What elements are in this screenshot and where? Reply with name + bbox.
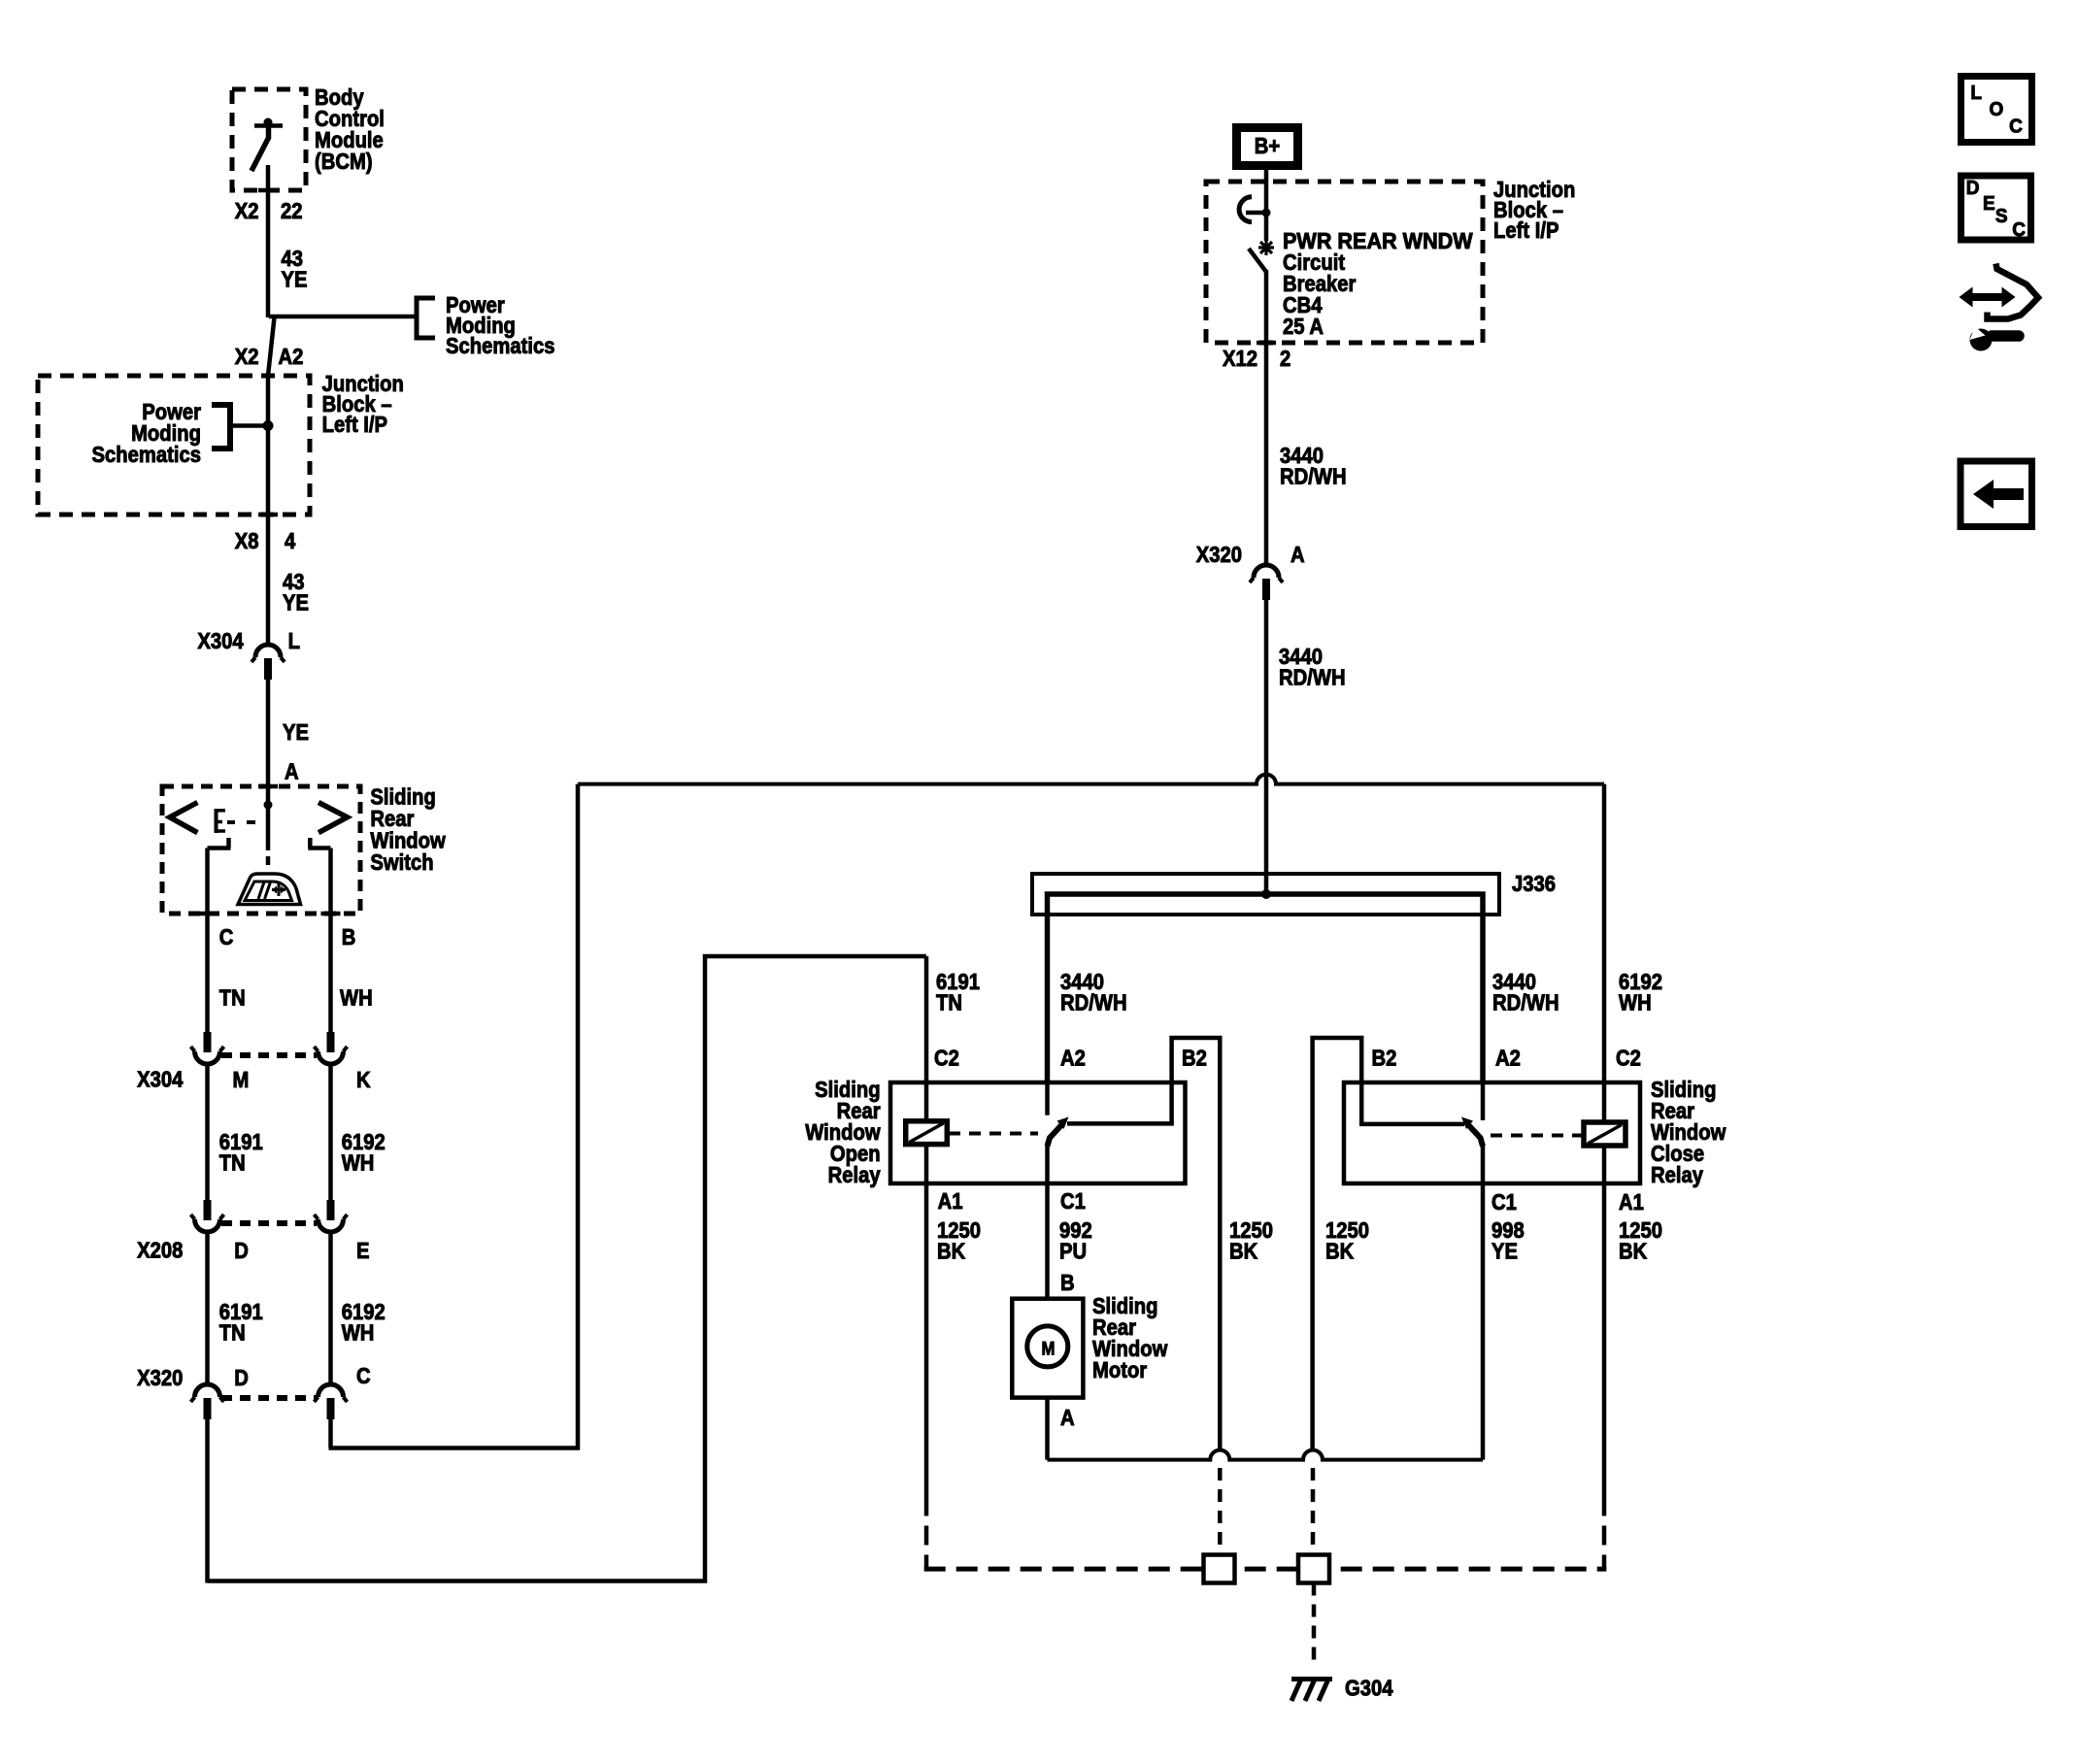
svg-text:C: C <box>356 1363 371 1389</box>
svg-text:25 A: 25 A <box>1283 314 1324 340</box>
svg-text:22: 22 <box>281 198 303 224</box>
svg-text:A1: A1 <box>1619 1189 1644 1215</box>
svg-text:Relay: Relay <box>828 1162 881 1188</box>
svg-text:X304: X304 <box>137 1066 183 1092</box>
svg-text:YE: YE <box>282 266 308 292</box>
svg-text:RD/WH: RD/WH <box>1060 989 1127 1015</box>
svg-text:TN: TN <box>219 984 246 1011</box>
svg-text:WH: WH <box>342 1319 375 1346</box>
svg-text:A: A <box>1060 1405 1075 1431</box>
svg-text:A: A <box>1290 542 1305 568</box>
svg-text:Left I/P: Left I/P <box>322 412 387 438</box>
svg-text:C1: C1 <box>1491 1189 1517 1215</box>
svg-text:TN: TN <box>936 989 962 1015</box>
svg-text:B2: B2 <box>1182 1045 1207 1071</box>
svg-text:RD/WH: RD/WH <box>1280 463 1347 489</box>
svg-text:K: K <box>356 1067 371 1093</box>
svg-text:C1: C1 <box>1060 1188 1086 1215</box>
svg-text:B: B <box>1060 1270 1075 1296</box>
svg-text:S: S <box>1995 206 2008 228</box>
svg-text:X320: X320 <box>137 1365 183 1391</box>
svg-text:J336: J336 <box>1512 871 1556 897</box>
svg-text:M: M <box>1042 1339 1056 1359</box>
svg-text:L: L <box>1970 83 1982 105</box>
svg-text:Schematics: Schematics <box>446 333 554 359</box>
svg-text:A2: A2 <box>1495 1045 1521 1071</box>
svg-text:YE: YE <box>283 589 309 616</box>
svg-text:Motor: Motor <box>1092 1357 1148 1383</box>
svg-text:A2: A2 <box>1060 1045 1086 1071</box>
svg-text:Relay: Relay <box>1651 1162 1703 1188</box>
svg-text:C: C <box>2009 116 2023 138</box>
svg-text:D: D <box>234 1365 249 1391</box>
svg-text:C: C <box>219 924 234 950</box>
svg-text:BK: BK <box>1229 1238 1258 1264</box>
svg-text:D: D <box>1966 178 1980 200</box>
svg-text:2: 2 <box>1280 346 1290 372</box>
svg-text:(BCM): (BCM) <box>315 149 373 175</box>
svg-text:X208: X208 <box>137 1237 183 1263</box>
svg-text:B+: B+ <box>1255 133 1280 159</box>
svg-text:WH: WH <box>340 984 373 1011</box>
svg-text:A: A <box>285 758 299 784</box>
svg-text:YE: YE <box>283 719 309 746</box>
svg-text:B2: B2 <box>1372 1045 1397 1071</box>
svg-text:O: O <box>1990 99 2004 121</box>
svg-text:D: D <box>234 1238 249 1264</box>
svg-text:C: C <box>2012 219 2026 242</box>
svg-text:X8: X8 <box>235 528 259 554</box>
svg-text:E: E <box>1983 193 1995 216</box>
svg-text:X2: X2 <box>235 198 259 224</box>
svg-text:X304: X304 <box>197 628 243 654</box>
svg-text:X12: X12 <box>1223 346 1257 372</box>
svg-text:M: M <box>233 1067 250 1093</box>
svg-text:Left I/P: Left I/P <box>1493 217 1558 244</box>
svg-text:RD/WH: RD/WH <box>1279 664 1346 690</box>
svg-text:C2: C2 <box>1616 1045 1641 1071</box>
svg-text:Switch: Switch <box>370 849 433 876</box>
svg-text:TN: TN <box>219 1319 246 1346</box>
svg-text:C2: C2 <box>934 1045 959 1071</box>
svg-text:YE: YE <box>1491 1238 1518 1264</box>
svg-text:BK: BK <box>1619 1238 1648 1264</box>
svg-text:B: B <box>342 924 356 950</box>
svg-text:4: 4 <box>285 528 295 554</box>
svg-text:BK: BK <box>1325 1238 1355 1264</box>
svg-text:X320: X320 <box>1196 542 1242 568</box>
svg-text:A1: A1 <box>938 1188 963 1215</box>
svg-text:L: L <box>288 628 300 654</box>
svg-text:TN: TN <box>219 1149 246 1176</box>
svg-text:PU: PU <box>1059 1238 1087 1264</box>
svg-text:WH: WH <box>1619 989 1652 1015</box>
svg-text:RD/WH: RD/WH <box>1492 989 1559 1015</box>
svg-text:Schematics: Schematics <box>92 442 201 468</box>
svg-text:E: E <box>356 1238 370 1264</box>
svg-text:WH: WH <box>342 1149 375 1176</box>
svg-text:BK: BK <box>937 1238 966 1264</box>
svg-text:A2: A2 <box>279 344 304 370</box>
svg-text:X2: X2 <box>235 344 259 370</box>
svg-text:G304: G304 <box>1345 1675 1393 1701</box>
